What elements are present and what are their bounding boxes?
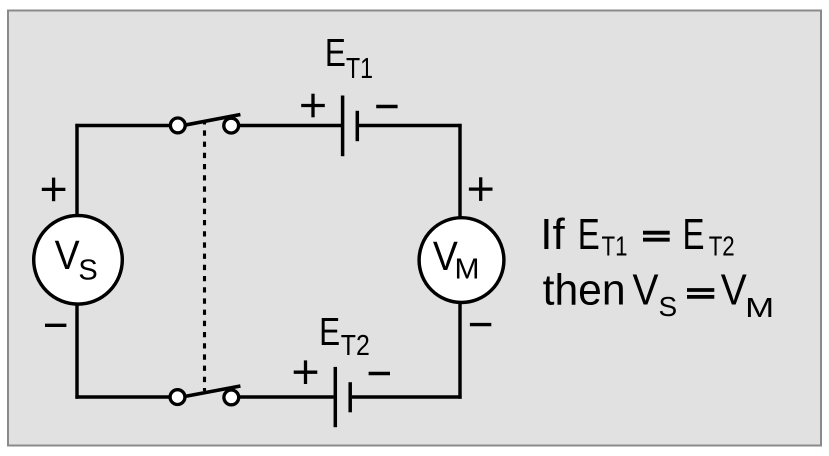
meter VM minus sign [470,323,491,326]
svg-text:S: S [659,291,678,322]
battery ET1 long plate [341,96,345,157]
meter VM body [419,218,504,303]
wire: left vertical upper (to meter VS top) [75,124,78,216]
svg-text:E: E [319,311,340,354]
meter VS minus sign [45,324,66,327]
wire: top right (battery ET1 to right corner) [359,124,462,127]
wire: top middle (switch S1 to battery ET1) [239,124,341,127]
battery ET2 plus sign [294,360,318,384]
switch S1 right contact [224,118,239,133]
svg-text:M: M [745,292,774,323]
svg-text:T1: T1 [602,231,628,262]
annotation line 1: If ET1 = ET2 [540,210,734,262]
svg-text:S: S [78,255,97,287]
battery ET1 minus sign [376,105,397,108]
svg-text:V: V [55,232,81,278]
wire: bottom middle (switch S2 to battery ET2) [239,395,334,398]
wire: right vertical upper (to meter VM top) [458,124,461,218]
svg-text:E: E [578,210,600,259]
svg-text:then: then [543,266,626,315]
switch S2 right contact [224,390,239,405]
meter VS plus sign [42,178,66,202]
battery ET2 short plate [348,382,352,412]
battery ET1 short plate [356,111,360,141]
svg-text:T1: T1 [346,53,373,85]
svg-text:T2: T2 [341,330,370,362]
wire: bottom right (battery ET2 to right corner) [352,395,462,398]
wire: bottom-left horizontal (to switch S2) [75,395,170,398]
switch S1 left contact [170,118,185,133]
wire: top-left horizontal (node to switch S1) [75,124,170,127]
svg-text:M: M [455,254,480,286]
svg-text:V: V [633,266,660,315]
annotation line 2: then VS = VM [543,266,775,323]
meter VM plus sign [469,177,493,201]
wire: right vertical lower (meter VM bottom to bottom wire) [458,302,461,399]
gang link (dotted) between switch poles [203,123,206,392]
switch S1 lever [185,115,241,126]
svg-text:E: E [683,210,705,259]
svg-text:E: E [325,32,346,75]
wire: left vertical lower (meter VS bottom to bottom wire) [75,303,78,399]
switch S2 left contact [170,390,185,405]
svg-text:V: V [721,266,748,315]
battery ET1 plus sign [301,94,325,118]
battery ET2 minus sign [369,372,390,375]
svg-text:If: If [540,210,565,259]
svg-text:T2: T2 [709,231,735,262]
battery ET2 long plate [334,367,338,427]
meter VS body [34,215,123,304]
switch S2 lever [185,386,241,397]
